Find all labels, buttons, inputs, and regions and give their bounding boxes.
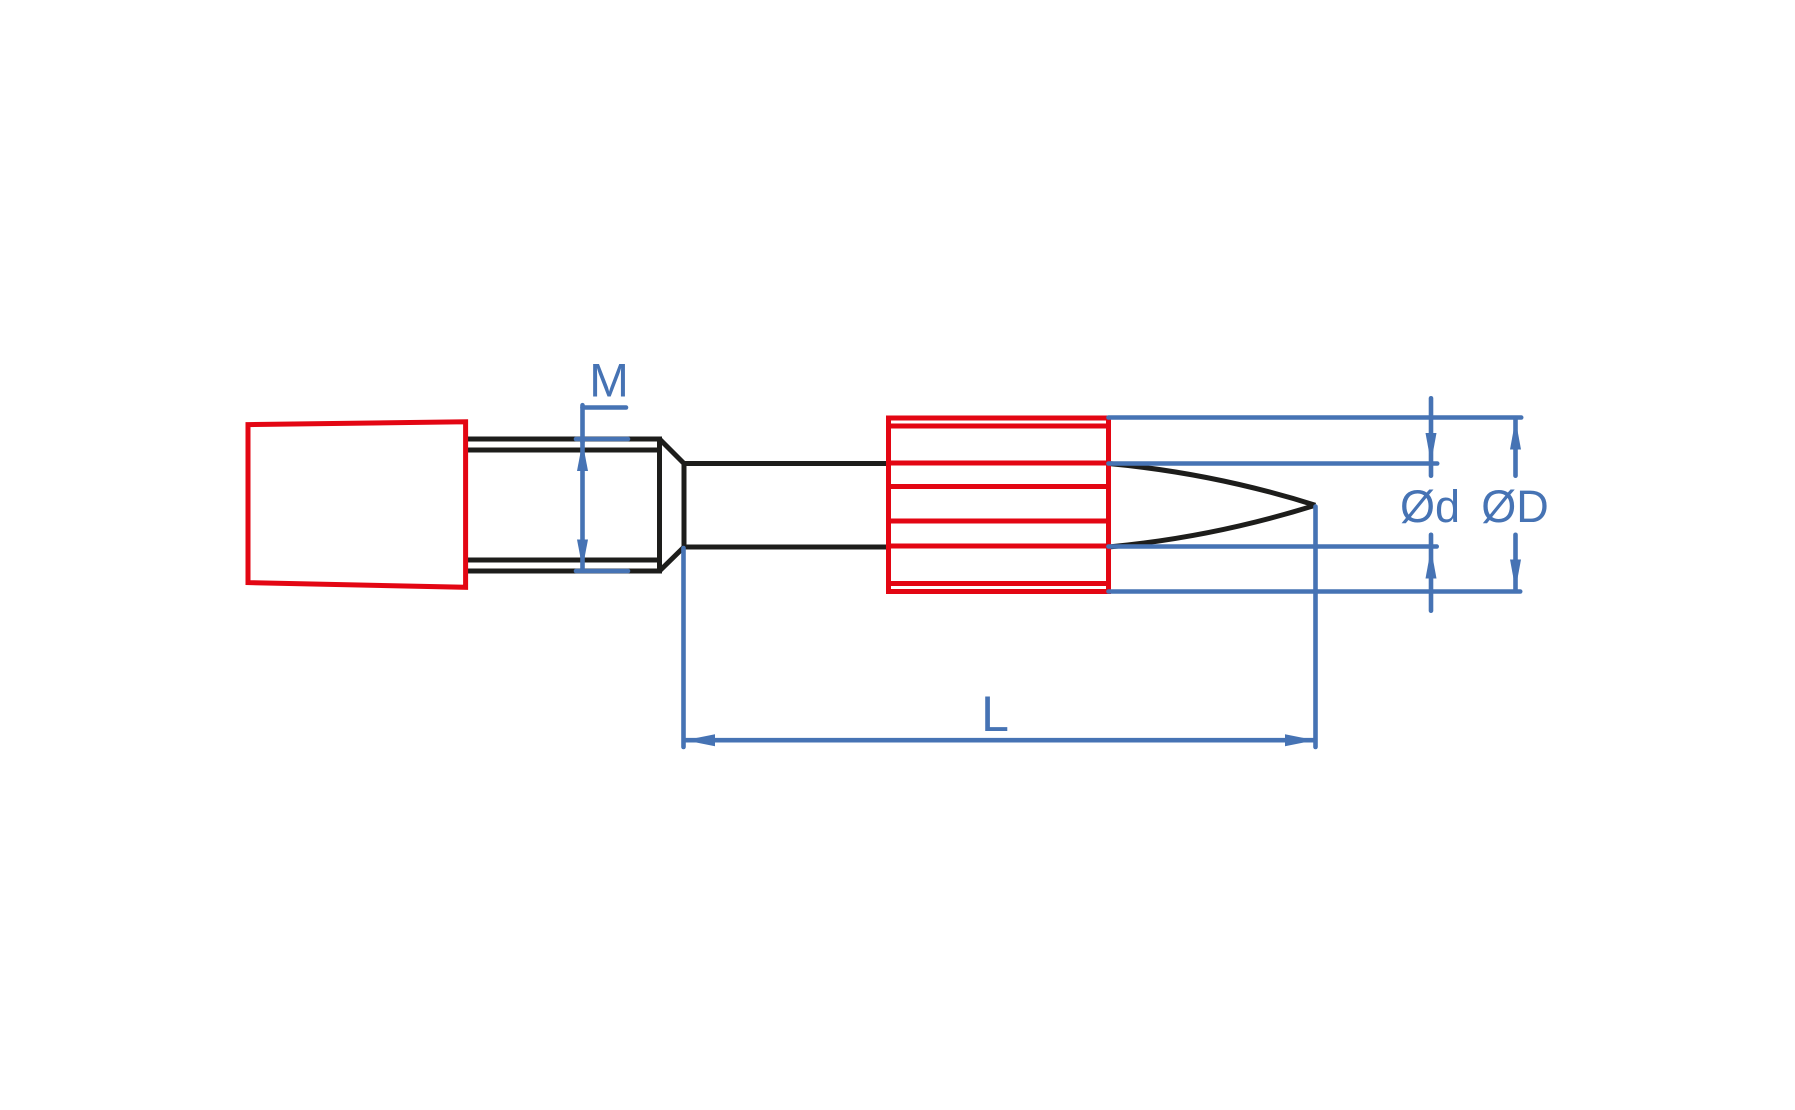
svg-text:ØD: ØD xyxy=(1481,481,1549,532)
svg-text:M: M xyxy=(589,355,629,408)
svg-text:L: L xyxy=(981,686,1009,742)
svg-text:Ød: Ød xyxy=(1400,481,1460,532)
